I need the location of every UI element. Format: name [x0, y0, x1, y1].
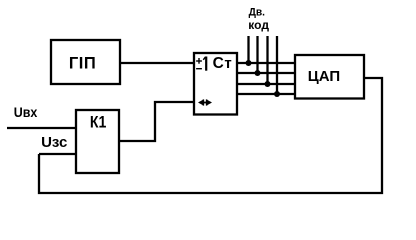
- junction dot bit 3: [265, 81, 271, 87]
- svg-text:К1: К1: [90, 113, 107, 131]
- wire Uvx input to K1: [7, 127, 76, 129]
- block DAC (TsAP): [295, 55, 364, 99]
- up/down arrow symbol in counter: [198, 99, 212, 105]
- junction dot bit 1: [246, 60, 252, 66]
- svg-text:Дв.: Дв.: [249, 6, 265, 18]
- svg-text:Uвх: Uвх: [14, 104, 38, 120]
- label Uzs (feedback voltage): [41, 134, 67, 151]
- svg-text:т: т: [224, 55, 231, 72]
- label Dv. (binary): [249, 6, 265, 18]
- wire counter output bit 4: [237, 93, 295, 95]
- label kod (code): [248, 18, 269, 32]
- wire counter output bit 3: [237, 83, 295, 85]
- wire counter output bit 1: [237, 62, 295, 64]
- svg-text:С: С: [213, 55, 224, 72]
- wire DAC output feedback loop to Uzs: [39, 78, 382, 193]
- svg-text:код: код: [248, 18, 269, 32]
- svg-text:Uзс: Uзс: [41, 134, 67, 151]
- label Uvx (input voltage): [14, 104, 38, 120]
- wire Uzs into K1: [39, 153, 76, 155]
- digit 1 of plus-minus-1: [203, 57, 206, 71]
- wire binary code tap 4: [276, 36, 278, 94]
- junction dot bit 2: [255, 70, 261, 76]
- wire counter output bit 2: [237, 72, 295, 74]
- svg-text:ЦАП: ЦАП: [308, 68, 340, 85]
- wire binary code tap 3: [266, 36, 268, 84]
- svg-text:ГIП: ГIП: [69, 55, 96, 73]
- block CT (reversible counter): [194, 53, 237, 115]
- wire K1 output up to counter input: [119, 102, 194, 141]
- wire GIP output to counter input: [120, 62, 194, 64]
- block K1 (comparator): [76, 110, 119, 173]
- label CT (counter designator): [213, 55, 232, 72]
- wire binary code tap 1: [247, 36, 249, 63]
- junction dot bit 4: [274, 91, 280, 97]
- wire binary code tap 2: [256, 36, 258, 73]
- plus-minus symbol in counter: [196, 58, 202, 69]
- block GIP (pulse generator): [51, 40, 120, 84]
